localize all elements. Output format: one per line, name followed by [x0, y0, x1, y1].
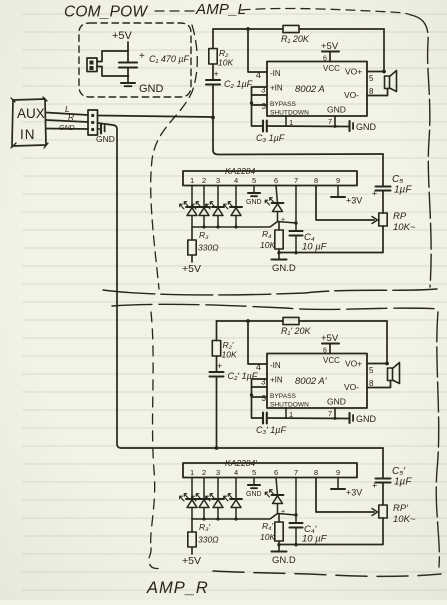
pin 1 shutdown tick L — [286, 116, 293, 127]
wire C1 to GND — [127, 68, 129, 82]
resistor R4′ 10K — [260, 514, 283, 545]
potentiometer RP′ 10K — [379, 503, 416, 525]
wire R out of AUX — [46, 120, 88, 122]
ground (aux connector) — [96, 124, 115, 145]
LED D3 — [206, 186, 224, 228]
pin 7 wire to C4′ — [295, 478, 297, 524]
LED D1′ — [180, 478, 198, 520]
wire R down left side to AMP_R input node — [98, 123, 217, 448]
wire LED rail L — [192, 222, 278, 229]
capacitor C2 1uF — [206, 69, 253, 118]
LED D4′ — [224, 478, 242, 520]
wire tap down to C5' — [382, 448, 384, 479]
wire C3′ to output ground — [267, 417, 348, 420]
pin 1 shutdown tick R — [286, 408, 293, 419]
block AUX IN — [11, 97, 48, 148]
capacitor C3 1uF — [256, 121, 285, 144]
power +5V at VCC pin 6 R — [321, 333, 339, 355]
connector J2 3-pin — [88, 110, 98, 135]
speaker LS2 — [388, 363, 400, 384]
LED D1 — [180, 186, 198, 228]
ground (amp L output side) — [350, 121, 377, 132]
resistor R4 10K — [260, 222, 283, 253]
dashed boundary AMP_L top — [155, 8, 411, 15]
section label COM_POW — [64, 4, 148, 21]
resistor R1 20K — [281, 25, 310, 44]
pin 4 label R — [256, 362, 261, 372]
label L — [65, 104, 70, 114]
pin 9 +3V R — [331, 478, 362, 498]
dashed box COM_POW — [79, 23, 191, 97]
capacitor C5′ 1uF — [372, 466, 412, 491]
wire feedback top rail L — [213, 28, 384, 30]
wire node to R4 — [278, 221, 298, 224]
IC U4 KA2284′ — [183, 458, 357, 478]
pin 7 wire to C4 — [295, 186, 297, 232]
resistor R2′ 10K — [212, 321, 237, 371]
wire tap down to C5 — [382, 154, 384, 187]
dashed boundary AMP_R right — [436, 312, 439, 567]
wire VO- to speaker L — [367, 87, 388, 96]
power +5V (LED rail R) — [182, 555, 201, 567]
resistor R3′ 330 — [188, 519, 219, 554]
pin 8 wiper wire R — [316, 478, 378, 516]
pin 5 ground (KA2284′) — [246, 478, 262, 499]
wire +5V to C1 — [127, 42, 129, 62]
power +5V at VCC pin 6 L — [321, 41, 339, 63]
resistor R1′ 20K — [281, 317, 312, 336]
dashed boundary AMP_L bottom — [103, 289, 437, 295]
wire LED rail R — [192, 514, 278, 521]
dashed boundary AMP_R top — [112, 304, 440, 309]
wire L to AMP_L input node — [98, 116, 213, 118]
section label AMP_R — [146, 579, 209, 597]
pin 9 +3V L — [331, 186, 362, 206]
LED D2′ — [192, 478, 210, 520]
pin 2 BYPASS wire L — [250, 95, 267, 111]
op-amp U3 8002A′ — [267, 354, 367, 409]
potentiometer RP 10K — [379, 211, 416, 233]
capacitor C2′ 1uF — [210, 361, 258, 448]
dashed boundary AMP_R bottom — [213, 571, 441, 576]
capacitor C1 470uF — [119, 51, 190, 68]
wire VO+ to speaker R — [367, 364, 388, 376]
LED D3′ — [206, 478, 224, 520]
LED D5 on pin 6 — [265, 186, 285, 224]
dashed boundary AMP_L right — [411, 15, 431, 287]
wire C5′ to RP′ — [382, 483, 384, 505]
node input L junction — [211, 116, 215, 120]
wire RP′ bottom to gnd rail — [279, 518, 383, 545]
node -IN junction R — [246, 319, 250, 323]
ground (amp R output side) — [350, 413, 377, 424]
connector J1 power input — [87, 58, 97, 72]
capacitor C5 1uF — [372, 174, 412, 199]
wire J1 to +5V rail — [97, 51, 128, 62]
pin 4 label L — [256, 70, 261, 80]
pin 7 GND tick L — [328, 116, 337, 128]
node output junction L — [382, 70, 386, 74]
wire node to R4′ — [278, 513, 298, 516]
wire L out of AUX — [46, 113, 88, 116]
ground (level meter R) — [272, 545, 296, 566]
pin 5 ground (KA2284) — [246, 186, 262, 207]
wire -IN to feedback R — [248, 321, 267, 364]
wire feedback top rail R — [217, 320, 388, 322]
wire -IN to feedback L — [248, 29, 267, 72]
node input R junction — [215, 446, 219, 450]
capacitor C4′ 10uF — [290, 523, 328, 545]
pin 3 +IN wire L — [252, 86, 268, 96]
LED D5′ on pin 6 — [265, 478, 285, 516]
LED D2 — [192, 186, 210, 228]
paper vignette — [0, 0, 1, 1]
gnd rail dots L — [277, 251, 297, 254]
IC U2 KA2284 — [183, 166, 357, 186]
section label AMP_L — [195, 1, 246, 18]
wire GND out of AUX — [46, 128, 88, 131]
speaker LS1 — [385, 71, 397, 92]
wire signal tap to level meter L — [213, 119, 383, 155]
capacitor C3′ 1uF — [256, 413, 286, 436]
wire bypass node to C3′ — [252, 395, 264, 418]
resistor R3 330 — [188, 227, 219, 262]
label R — [68, 112, 74, 122]
node -IN junction L — [246, 27, 250, 31]
gnd rail dots R — [277, 543, 297, 546]
wire feedback to output node R — [386, 321, 388, 364]
label GND (aux) — [59, 125, 75, 132]
wire signal tap to level meter R — [217, 447, 384, 449]
LED D4 — [224, 186, 242, 228]
dashed boundary AMP_R left — [149, 312, 163, 569]
wire C5 to RP — [382, 191, 384, 213]
wire VO- to speaker R — [367, 379, 391, 388]
pin 7 GND tick R — [328, 408, 337, 420]
dashed boundary AMP_L left — [151, 25, 198, 289]
capacitor C4 10uF — [290, 231, 328, 253]
wire C3 to output ground — [267, 125, 348, 128]
pin 8 wiper wire L — [316, 186, 378, 224]
node output junction R — [385, 362, 389, 366]
wire bypass node to C3 — [252, 103, 264, 126]
ground (level meter L) — [272, 253, 296, 274]
wire J1 to GND rail — [97, 67, 129, 77]
ground (COM_POW) — [121, 83, 164, 95]
wire RP bottom to gnd rail — [279, 226, 383, 253]
resistor R2 10K — [209, 29, 234, 79]
wire VO+ to speaker L — [367, 72, 385, 84]
pin 2 BYPASS wire R — [250, 387, 267, 403]
power +5V (LED rail L) — [182, 263, 201, 275]
pin 3 +IN wire R — [252, 378, 268, 388]
net +5V (COM_POW) — [112, 30, 133, 42]
wire feedback to output node L — [383, 29, 385, 72]
op-amp U1 8002A — [267, 62, 367, 117]
